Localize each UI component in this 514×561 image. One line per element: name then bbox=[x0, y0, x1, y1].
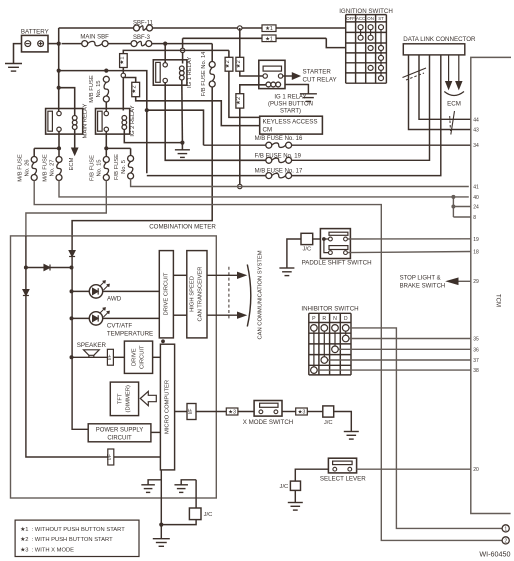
svg-text:J/C: J/C bbox=[302, 246, 311, 252]
wire battery bus vertical bbox=[58, 28, 60, 111]
ground (meter 2) bbox=[174, 485, 188, 493]
switch SELECT LEVER bbox=[320, 458, 366, 483]
wire select lever to J/C bbox=[295, 469, 328, 481]
fuse MAIN SBF bbox=[80, 35, 109, 47]
svg-text:F/B FUSE No. 14: F/B FUSE No. 14 bbox=[201, 51, 207, 97]
node connector pin41 line bbox=[238, 184, 242, 188]
svg-text:No. 15: No. 15 bbox=[97, 159, 103, 176]
svg-text:D: D bbox=[344, 316, 348, 322]
wire ignition ON/ST feed line bbox=[183, 38, 346, 47]
node bus B awd bbox=[70, 289, 74, 293]
svg-text:START): START) bbox=[280, 108, 301, 114]
svg-text:COMBINATION METER: COMBINATION METER bbox=[149, 224, 216, 231]
led AWD bbox=[72, 281, 160, 303]
label CAN COMMUNICATION SYSTEM bbox=[258, 250, 264, 339]
svg-text:WI-60450: WI-60450 bbox=[479, 550, 510, 559]
relay IG 1 RELAY (PUSH BUTTON START) bbox=[259, 60, 313, 114]
fuse F/B No.14 bbox=[201, 51, 215, 97]
svg-text:24: 24 bbox=[473, 205, 479, 211]
svg-text:J/C: J/C bbox=[280, 484, 289, 490]
diode (A to B) bbox=[44, 265, 50, 271]
annotation box star2 E bbox=[235, 94, 244, 108]
svg-text:F/B FUSE: F/B FUSE bbox=[114, 154, 120, 180]
svg-text:POWER SUPPLY: POWER SUPPLY bbox=[96, 428, 144, 434]
svg-text:I/F: I/F bbox=[188, 409, 194, 415]
svg-text:CAN TRANSCEIVER: CAN TRANSCEIVER bbox=[198, 267, 204, 322]
wire to fuse26 bbox=[34, 148, 59, 156]
svg-text:M/B FUSE: M/B FUSE bbox=[89, 75, 95, 103]
svg-text:SELECT LEVER: SELECT LEVER bbox=[320, 476, 366, 483]
inhibitor switch contacts bbox=[311, 325, 349, 374]
node connector IG1 coil wire bbox=[180, 48, 184, 52]
wire fuse14 to meter bbox=[72, 87, 212, 236]
ground (relay coils) bbox=[175, 143, 190, 158]
wire paddle to TCM pin19 bbox=[347, 238, 470, 240]
annotation box star1 upper bbox=[262, 25, 276, 32]
fuse M/B No.17 bbox=[147, 55, 441, 179]
svg-text:HIGH SPEED: HIGH SPEED bbox=[190, 276, 196, 312]
switch IGNITION SWITCH table bbox=[339, 8, 393, 83]
annotation box star2 B bbox=[131, 82, 140, 96]
svg-text:MICRO COMPUTER: MICRO COMPUTER bbox=[164, 380, 170, 434]
svg-text:36: 36 bbox=[473, 347, 479, 353]
wire inhibitor to TCM pin38 bbox=[317, 369, 471, 371]
wire select lever to TCM pin20 bbox=[357, 468, 471, 470]
svg-text:BRAKE SWITCH: BRAKE SWITCH bbox=[400, 283, 446, 289]
svg-text:: WITHOUT PUSH BUTTON START: : WITHOUT PUSH BUTTON START bbox=[32, 527, 126, 533]
svg-text:STARTER: STARTER bbox=[303, 69, 332, 76]
wire J/C to paddle switch bbox=[313, 238, 321, 240]
wire to IG1 relay coil bbox=[182, 38, 184, 63]
svg-text:SPEAKER: SPEAKER bbox=[77, 342, 107, 349]
svg-text:BATTERY: BATTERY bbox=[21, 28, 49, 35]
box DRIVE CIRCUIT (CAN) bbox=[159, 251, 173, 338]
wire CAN H bbox=[207, 272, 246, 278]
wire IG1 coil to ground bbox=[181, 80, 184, 143]
wire starter cut relay bbox=[283, 69, 337, 84]
svg-text:(PUSH BUTTON: (PUSH BUTTON bbox=[268, 102, 313, 108]
svg-text:CVT/ATF: CVT/ATF bbox=[107, 322, 133, 329]
svg-text:44: 44 bbox=[473, 117, 479, 123]
node bus B link bbox=[70, 266, 74, 270]
label WI-60450 bbox=[479, 550, 510, 559]
wire main relay coil feed bbox=[59, 88, 75, 116]
node connector IG2 coil wire bbox=[121, 73, 125, 77]
diode (bus B top) bbox=[69, 251, 75, 257]
wire micro to X mode bbox=[175, 411, 227, 413]
svg-text:N: N bbox=[333, 316, 337, 322]
svg-text:20: 20 bbox=[473, 467, 479, 473]
led CVT/ATF TEMPERATURE bbox=[72, 308, 160, 338]
node circled 1 bbox=[502, 525, 509, 533]
wire DLC pin2 to TCM44 bbox=[419, 55, 471, 119]
wire bus y70 horizontal bbox=[59, 71, 147, 174]
switch X MODE SWITCH bbox=[243, 401, 294, 426]
svg-text:1: 1 bbox=[504, 527, 507, 533]
battery bbox=[21, 28, 49, 52]
svg-text:I/F: I/F bbox=[107, 454, 113, 460]
node battery bus junction bbox=[57, 42, 61, 46]
connector DATA LINK CONNECTOR bbox=[403, 36, 476, 55]
wire MAIN SBF to SBF-3 bbox=[108, 43, 131, 45]
svg-text:MAIN RELAY: MAIN RELAY bbox=[83, 104, 89, 139]
svg-text:38: 38 bbox=[473, 368, 479, 374]
svg-text:: WITH X MODE: : WITH X MODE bbox=[32, 547, 75, 553]
wire xmode J/C ground bbox=[334, 412, 352, 432]
wire IG1 contact to fuse19 bbox=[165, 83, 266, 161]
svg-text:★3: ★3 bbox=[298, 410, 306, 416]
switch PADDLE SHIFT SWITCH bbox=[302, 229, 372, 267]
fuse M/B No.26 bbox=[18, 154, 38, 182]
svg-text:X MODE SWITCH: X MODE SWITCH bbox=[243, 419, 294, 426]
wire fuse16 feed bbox=[147, 110, 204, 145]
svg-text:CUT RELAY: CUT RELAY bbox=[303, 76, 337, 83]
ground (IG1-PB relay) bbox=[300, 94, 317, 102]
node bus y70 bbox=[57, 69, 61, 73]
svg-text:★1: ★1 bbox=[118, 57, 125, 65]
wire inhibitor to TCM pin35 bbox=[349, 338, 471, 340]
svg-text:37: 37 bbox=[473, 358, 479, 364]
node fuse16 feed bbox=[145, 108, 149, 112]
junction J/C (select lever) bbox=[280, 481, 301, 490]
wire fuse15 into meter bbox=[26, 181, 106, 236]
symbol arrow to TFT bbox=[140, 391, 156, 405]
wire IF to drive circuit bbox=[113, 356, 124, 358]
svg-text:41: 41 bbox=[473, 185, 479, 191]
wire IG2 coil ground link bbox=[124, 130, 182, 143]
svg-text:J/C: J/C bbox=[324, 420, 333, 426]
wire inhibitor to TCM pin36 bbox=[338, 348, 471, 350]
wire IG1-PB coil to star2 E bbox=[240, 85, 266, 185]
wire chassis ground stem bbox=[160, 525, 162, 539]
module TCM box bbox=[471, 57, 511, 513]
wire branch left to star1 chain bbox=[123, 50, 182, 110]
svg-text:DRIVE: DRIVE bbox=[132, 348, 138, 366]
svg-text:AWD: AWD bbox=[107, 296, 122, 303]
svg-text:ECM: ECM bbox=[447, 101, 461, 108]
relay IG 2 RELAY bbox=[96, 105, 136, 136]
wire DLC pin1 to TCM43 bbox=[409, 55, 471, 130]
annotation box star2 C bbox=[224, 57, 233, 71]
svg-text:STOP LIGHT &: STOP LIGHT & bbox=[400, 276, 441, 282]
symbol ECM bracket bbox=[444, 92, 464, 108]
svg-text:35: 35 bbox=[473, 337, 479, 343]
box HIGH SPEED CAN TRANSCEIVER bbox=[187, 251, 207, 338]
svg-text:★1: ★1 bbox=[265, 36, 273, 42]
wire fuse15 to IG2 contact bbox=[105, 102, 107, 111]
svg-text:34: 34 bbox=[473, 143, 479, 149]
symbol CAN arc bbox=[247, 265, 251, 327]
svg-text:ON: ON bbox=[367, 16, 374, 21]
node chassis ground bbox=[159, 523, 163, 527]
wire to fuse5 bbox=[106, 148, 130, 155]
battery ground wire bbox=[14, 44, 22, 64]
wire paddle to TCM pin18 bbox=[347, 252, 470, 253]
relay MAIN RELAY bbox=[46, 104, 89, 139]
box MICRO COMPUTER bbox=[160, 344, 174, 470]
wire inhibitor D to circled1 bbox=[349, 328, 502, 529]
svg-text:(DIMMER): (DIMMER) bbox=[126, 385, 132, 412]
node circled 2 bbox=[502, 537, 509, 545]
svg-text:29: 29 bbox=[473, 279, 479, 285]
annotation box star1 lower bbox=[262, 35, 276, 42]
svg-text:CAN COMMUNICATION SYSTEM: CAN COMMUNICATION SYSTEM bbox=[258, 250, 264, 339]
switch INHIBITOR SWITCH table bbox=[301, 305, 358, 375]
svg-text:No. 26: No. 26 bbox=[25, 159, 31, 176]
wire IG2 contact bottom bbox=[105, 132, 107, 149]
svg-text:★1: ★1 bbox=[20, 526, 28, 533]
svg-text:M/B FUSE: M/B FUSE bbox=[18, 154, 24, 182]
node drive-micro link bbox=[161, 339, 165, 343]
svg-text:J/C: J/C bbox=[204, 512, 213, 518]
svg-text:★2: ★2 bbox=[224, 60, 231, 68]
wire drive-transceiver links bbox=[173, 275, 186, 315]
ignition switch contacts bbox=[358, 25, 383, 81]
node bus y87 bbox=[57, 86, 61, 90]
wire meter bus A bbox=[26, 236, 161, 457]
svg-text:40: 40 bbox=[473, 195, 479, 201]
svg-text:★1: ★1 bbox=[265, 26, 273, 32]
box DRIVE CIRCUIT (speaker) bbox=[124, 341, 152, 373]
ground (paddle J/C) bbox=[279, 268, 294, 276]
wire CAN L bbox=[207, 312, 246, 318]
svg-text:R: R bbox=[322, 316, 326, 322]
svg-text:KEYLESS ACCESS: KEYLESS ACCESS bbox=[263, 119, 318, 126]
wire meter bus B bbox=[72, 236, 88, 429]
svg-text:CIRCUIT: CIRCUIT bbox=[140, 345, 146, 369]
svg-text:SBF-3: SBF-3 bbox=[133, 35, 151, 41]
speaker bbox=[72, 342, 108, 358]
wire bus to MAIN SBF bbox=[62, 43, 82, 45]
annotation box star3 B bbox=[296, 408, 308, 416]
wire fuse27 to TCM pin40 bbox=[59, 181, 469, 197]
svg-text:M/B FUSE No. 17: M/B FUSE No. 17 bbox=[255, 168, 303, 174]
node fuse15 feed bbox=[104, 69, 108, 73]
svg-text:8: 8 bbox=[473, 215, 476, 221]
junction J/C (below meter) bbox=[189, 508, 212, 520]
svg-text:MAIN SBF: MAIN SBF bbox=[80, 35, 109, 41]
svg-text:: WITH PUSH BUTTON START: : WITH PUSH BUTTON START bbox=[32, 537, 114, 543]
junction J/C (X mode) bbox=[323, 406, 334, 426]
wire ECM arrows (DLC) bbox=[446, 55, 462, 89]
wire select J/C ground bbox=[294, 490, 296, 502]
fuse M/B No.15 upper bbox=[89, 75, 109, 103]
svg-text:IG 1 RELAY: IG 1 RELAY bbox=[274, 94, 306, 100]
svg-text:19: 19 bbox=[473, 237, 479, 243]
annotation box star1 A bbox=[118, 54, 127, 68]
box POWER SUPPLY CIRCUIT bbox=[88, 424, 151, 442]
svg-text:P: P bbox=[312, 316, 316, 322]
svg-text:★3: ★3 bbox=[20, 546, 28, 553]
svg-text:OFF: OFF bbox=[346, 16, 355, 21]
ground (meter 1) bbox=[141, 485, 155, 493]
wire SBF-11 branch vertical bbox=[240, 28, 263, 76]
box I/F (X mode) bbox=[187, 404, 196, 420]
node IG2 relay out bbox=[104, 146, 108, 150]
wire line1 to SBF-11 bbox=[59, 27, 134, 29]
wire SBF-11 to ignition switch row1 bbox=[153, 27, 346, 29]
svg-text:I/F: I/F bbox=[107, 354, 113, 360]
svg-text:DATA LINK CONNECTOR: DATA LINK CONNECTOR bbox=[403, 36, 476, 43]
node bus B speaker bbox=[70, 355, 74, 359]
svg-text:PADDLE SHIFT SWITCH: PADDLE SHIFT SWITCH bbox=[302, 260, 372, 267]
node bus B cvt bbox=[70, 316, 74, 320]
svg-text:TCM: TCM bbox=[494, 294, 500, 307]
svg-text:M/B FUSE No. 16: M/B FUSE No. 16 bbox=[255, 136, 303, 142]
wire micro ground bbox=[148, 470, 161, 525]
svg-text:★2: ★2 bbox=[235, 97, 242, 105]
box COMBINATION METER bbox=[11, 224, 217, 499]
wire star3b to J/C bbox=[307, 411, 323, 413]
junction J/C (paddle) bbox=[301, 233, 313, 252]
wire SBF-3 to F/B fuse 14 feed bbox=[152, 44, 212, 62]
wire drive circuit to micro computer bbox=[153, 356, 161, 358]
ground (select lever) bbox=[288, 503, 303, 511]
svg-text:★2: ★2 bbox=[235, 60, 242, 68]
svg-text:★2: ★2 bbox=[20, 536, 28, 543]
wire IG1PB ground bbox=[285, 85, 308, 94]
svg-text:★2: ★2 bbox=[131, 85, 138, 93]
connector slash (TCM 44/43) bbox=[450, 111, 455, 135]
svg-text:43: 43 bbox=[473, 128, 479, 134]
ground (chassis below meter) bbox=[153, 539, 170, 547]
svg-text:No. 27: No. 27 bbox=[50, 159, 56, 176]
wire inhibitor to TCM pin37 bbox=[328, 359, 471, 361]
svg-text:No. 5: No. 5 bbox=[121, 160, 127, 174]
node connector on line1 bbox=[238, 26, 242, 30]
wire stop light brake switch bbox=[400, 276, 471, 290]
svg-text:TEMPERATURE: TEMPERATURE bbox=[107, 330, 153, 337]
svg-text:No. 15: No. 15 bbox=[96, 80, 102, 97]
svg-text:2: 2 bbox=[504, 539, 507, 545]
node pin24 branch bbox=[451, 205, 455, 209]
svg-text:ACC: ACC bbox=[356, 16, 365, 21]
wire battery to bus bbox=[48, 43, 59, 45]
fuse M/B No.27 bbox=[43, 150, 63, 181]
fuse SBF-3 bbox=[131, 35, 152, 46]
TCM pin labels bbox=[473, 117, 479, 473]
box I/F (bottom) bbox=[107, 449, 114, 465]
relay IG 1 RELAY bbox=[153, 57, 193, 88]
node pin40 branch bbox=[451, 195, 455, 199]
svg-text:CIRCUIT: CIRCUIT bbox=[107, 435, 132, 441]
ground (X mode) bbox=[344, 432, 359, 440]
wire to keyless access CM row1 bbox=[183, 50, 260, 117]
svg-text:F/B FUSE: F/B FUSE bbox=[90, 155, 96, 181]
wire meter ground 2 chain bbox=[161, 480, 196, 525]
diode (bus A down) bbox=[23, 290, 29, 296]
wire star3 to xmode bbox=[238, 411, 254, 413]
box TFT (DIMMER) bbox=[110, 382, 138, 416]
svg-text:TFT: TFT bbox=[118, 393, 124, 404]
svg-text:CM: CM bbox=[263, 127, 273, 134]
svg-text:IG 1 RELAY: IG 1 RELAY bbox=[187, 57, 193, 88]
connector slash (DLC) bbox=[403, 68, 427, 80]
wire main relay contact bottom bbox=[58, 132, 60, 149]
box I/F (speaker) bbox=[107, 349, 114, 365]
label ECM (main relay) bbox=[69, 157, 75, 170]
wire paddle J/C ground bbox=[287, 239, 301, 268]
svg-text:ECM: ECM bbox=[69, 157, 75, 170]
wire branch to IG1 relay contact bbox=[164, 44, 166, 63]
legend box bbox=[15, 520, 139, 556]
annotation box star3 A bbox=[226, 408, 238, 416]
box KEYLESS ACCESS CM bbox=[260, 116, 323, 134]
node main relay out bbox=[57, 146, 61, 150]
ground (battery) bbox=[5, 64, 22, 72]
fuse F/B No.19 bbox=[255, 55, 430, 163]
node SBF-3 branch bbox=[163, 42, 167, 46]
svg-text:18: 18 bbox=[473, 250, 479, 256]
svg-text:INHIBITOR SWITCH: INHIBITOR SWITCH bbox=[301, 305, 358, 312]
wire fuse5 to TCM pin41 bbox=[131, 179, 469, 187]
wire fuse26 to circled2 bbox=[34, 181, 502, 541]
connector dashes (CAN) bbox=[228, 267, 230, 320]
wire diode link bbox=[26, 267, 72, 269]
node coil ground node bbox=[180, 141, 184, 145]
svg-text:SBF-11: SBF-11 bbox=[133, 21, 154, 27]
fuse F/B No.15 bbox=[90, 150, 110, 181]
wire power supply to micro computer bbox=[151, 431, 161, 433]
fuse M/B No.16 bbox=[204, 136, 471, 148]
svg-text:IG 2 RELAY: IG 2 RELAY bbox=[130, 105, 136, 136]
node bus A link bbox=[24, 266, 28, 270]
fuse F/B No.5 bbox=[114, 154, 134, 180]
wire xmode to star3b bbox=[282, 411, 296, 413]
wire ECM arrow bbox=[72, 130, 78, 156]
wire pins 24 and 8 bracket bbox=[453, 197, 470, 217]
svg-text:★3: ★3 bbox=[228, 410, 236, 416]
annotation box star2 D bbox=[235, 57, 244, 71]
wire branch to star2 B bbox=[123, 78, 259, 126]
fuse SBF-11 bbox=[133, 21, 154, 31]
svg-text:ST: ST bbox=[378, 16, 384, 21]
svg-text:M/B FUSE: M/B FUSE bbox=[43, 154, 49, 182]
svg-text:DRIVE CIRCUIT: DRIVE CIRCUIT bbox=[163, 272, 169, 315]
